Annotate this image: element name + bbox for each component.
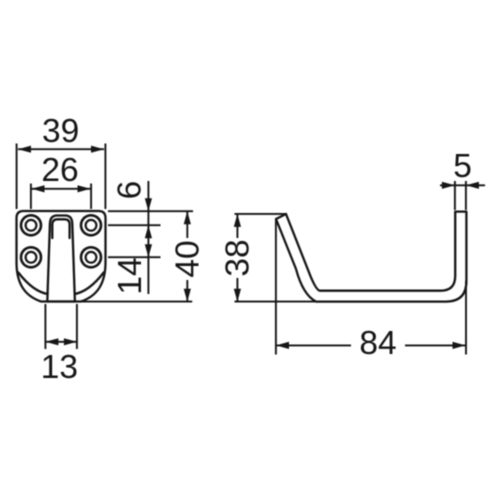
svg-text:38: 38: [220, 239, 257, 276]
svg-text:84: 84: [359, 325, 396, 362]
svg-text:5: 5: [453, 148, 472, 185]
svg-text:39: 39: [42, 113, 79, 150]
svg-text:14: 14: [112, 257, 149, 294]
svg-text:40: 40: [169, 240, 206, 277]
svg-text:6: 6: [112, 181, 149, 200]
svg-text:13: 13: [41, 349, 78, 386]
svg-text:26: 26: [41, 152, 78, 189]
